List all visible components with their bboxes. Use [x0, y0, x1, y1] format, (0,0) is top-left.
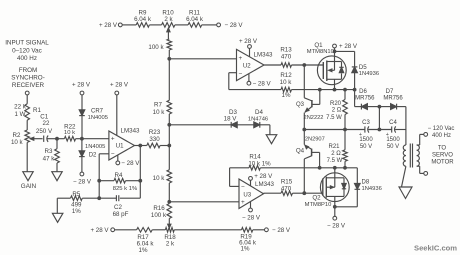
capacitor C4 1500uF 50V [386, 120, 401, 150]
svg-text:SeekIC.com: SeekIC.com [414, 244, 457, 253]
resistor R7 10k [153, 100, 172, 116]
svg-text:1%: 1% [72, 208, 81, 215]
resistor R22 10k [57, 123, 82, 141]
resistor 10k below node C [153, 146, 172, 202]
node Q1 source [333, 88, 337, 92]
wire bottom rail left [115, 229, 137, 231]
label -120 Vac 400 Hz [428, 126, 455, 139]
svg-text:1N4005: 1N4005 [85, 144, 105, 150]
zener D3 18V [224, 109, 254, 128]
svg-text:R14: R14 [249, 153, 261, 160]
node R5/C2 junction [97, 196, 101, 200]
node Q4 base tap [318, 166, 322, 170]
svg-text:7.5 W: 7.5 W [327, 158, 343, 164]
input terminal from synchro receiver [25, 91, 29, 104]
svg-text:400 Hz: 400 Hz [17, 55, 37, 62]
resistor 100k below R10 wiper [148, 39, 171, 51]
wire source rail left of R12 [229, 89, 281, 91]
svg-text:10 k 1%: 10 k 1% [248, 160, 271, 167]
wire R1 to R2 [26, 120, 28, 130]
svg-text:TO: TO [438, 146, 447, 152]
wire secondary bottom to terminal [417, 166, 428, 175]
node CR7/D2 junction [80, 137, 84, 141]
ground below zener clamp [266, 135, 277, 144]
resistor R17 6.04k 1% [137, 228, 155, 254]
svg-text:U1: U1 [116, 143, 124, 150]
diode D2 1N4005 [79, 139, 105, 172]
wire R18 to R19 [174, 229, 241, 231]
ground below R5 [52, 213, 63, 222]
node U1 output [138, 144, 142, 148]
svg-text:D5: D5 [359, 64, 367, 71]
svg-text:MR756: MR756 [383, 95, 403, 101]
op-amp U3 LM343 [239, 179, 275, 209]
svg-text:R3: R3 [45, 148, 53, 155]
node R20 top [343, 88, 347, 92]
svg-text:10 k: 10 k [153, 175, 166, 182]
svg-text:−: − [239, 70, 243, 77]
+28V terminal bottom rail [90, 227, 114, 234]
diode D8 1N4936 [355, 168, 382, 207]
resistor R19 6.04k 1% [239, 228, 257, 253]
svg-text:D4: D4 [255, 109, 263, 116]
capacitor C2 68pF [99, 195, 140, 218]
wire U2 output [264, 64, 281, 66]
svg-text:2 Ω: 2 Ω [332, 108, 342, 114]
svg-text:2N2907: 2N2907 [305, 137, 325, 143]
svg-text:10 k: 10 k [280, 79, 293, 86]
potentiometer R18 2k [164, 228, 176, 248]
svg-text:+: + [239, 55, 243, 62]
wire secondary top to output terminal [417, 133, 428, 146]
diode D7 MR756 [379, 89, 406, 130]
svg-text:68 pF: 68 pF [113, 211, 129, 218]
node A wire to U2 [167, 50, 236, 61]
wire R2 to GAIN ground [26, 142, 28, 171]
svg-text:100 k: 100 k [148, 44, 164, 51]
+28V pin of U3 [249, 173, 274, 186]
node Q3 base tap [318, 88, 322, 92]
svg-text:LM343: LM343 [255, 181, 274, 188]
diode CR7 1N4005 [79, 108, 108, 138]
svg-text:47 k: 47 k [43, 155, 56, 162]
svg-text:18 V: 18 V [224, 115, 238, 122]
diode D6 MR756 [355, 89, 380, 110]
svg-text:D2: D2 [89, 153, 97, 159]
node R4 right [138, 179, 142, 183]
resistor R21 2ohm 7.5W [327, 130, 348, 168]
svg-text:100 k: 100 k [151, 212, 167, 219]
svg-text:1%: 1% [282, 92, 291, 99]
svg-text:C3: C3 [362, 120, 370, 126]
svg-text:U3: U3 [243, 191, 251, 198]
op-amp U2 LM343 [237, 49, 274, 80]
node R3 junction [55, 137, 59, 141]
+28V terminal for U1 [110, 82, 129, 136]
svg-text:+ 28 V: + 28 V [339, 43, 358, 50]
svg-text:+: + [111, 136, 115, 143]
resistor R14 10k 1% [248, 153, 271, 170]
svg-text:CR7: CR7 [91, 108, 104, 114]
node D5 bottom [353, 88, 357, 107]
-28V pin of U2 [247, 74, 272, 88]
wire gate line to Q2 [304, 192, 323, 194]
svg-text:6.04 k: 6.04 k [134, 16, 152, 23]
mosfet Q2 MTM8P10 [320, 168, 349, 207]
svg-text:2 Ω: 2 Ω [331, 151, 341, 157]
wire Q2 source rail [333, 205, 357, 209]
output rail [304, 129, 406, 131]
svg-text:− 120 Vac: − 120 Vac [428, 126, 455, 132]
svg-text:+ 28 V: + 28 V [254, 173, 273, 180]
capacitor C1 22uF 250V [36, 113, 57, 142]
svg-text:0–120 Vac: 0–120 Vac [12, 48, 42, 55]
svg-text:+: + [241, 199, 245, 206]
resistor R11 6.04k [186, 9, 204, 27]
+28V pin of U2 [239, 38, 258, 57]
svg-text:R12: R12 [280, 72, 292, 79]
svg-text:825 k 1%: 825 k 1% [113, 186, 138, 192]
wire U2 minus feedback loop [229, 73, 237, 90]
resistor R1 22k 1W [14, 104, 41, 121]
node R21 bottom [343, 166, 347, 170]
watermark SeekIC.com [414, 244, 457, 253]
svg-text:R13: R13 [280, 46, 292, 53]
node B junction [167, 114, 171, 127]
svg-text:R7: R7 [154, 101, 162, 108]
node D junction [167, 200, 171, 204]
svg-text:− 28 V: − 28 V [225, 22, 244, 29]
-28V pin of U3 [242, 202, 261, 222]
node Q3/Q4 emitter on output rail [302, 128, 306, 132]
svg-text:Q2: Q2 [312, 195, 321, 202]
wire U1 output down to C2 [139, 146, 141, 199]
+28V terminal above CR7 [72, 82, 91, 110]
svg-text:R5: R5 [72, 191, 80, 198]
wire top rail [122, 24, 217, 26]
wire node B to zener clamp [169, 124, 231, 126]
svg-text:1%: 1% [241, 245, 250, 252]
svg-text:R15: R15 [281, 178, 293, 185]
zener D4 1N4746 [248, 109, 270, 128]
svg-text:+ 28 V: + 28 V [99, 22, 118, 29]
svg-text:−: − [111, 151, 115, 158]
svg-text:470: 470 [281, 53, 292, 60]
node Q3 collector on gate line [302, 63, 306, 67]
transistor Q3 2N2222 [296, 65, 323, 130]
svg-text:1N4005: 1N4005 [88, 115, 108, 121]
ground below R3 [52, 172, 62, 181]
wire U1 minus feedback [99, 154, 109, 198]
svg-text:470: 470 [281, 185, 292, 192]
svg-text:D8: D8 [362, 179, 370, 185]
svg-text:U2: U2 [243, 63, 251, 70]
svg-text:2 k: 2 k [166, 240, 175, 247]
+28V terminal top rail [99, 22, 122, 29]
svg-text:+ 28 V: + 28 V [239, 38, 258, 45]
svg-text:− 28 V: − 28 V [73, 178, 92, 185]
ground below transformer [399, 187, 412, 199]
wire Q1 drain [333, 48, 337, 62]
node Q2 drain [333, 166, 337, 170]
label INPUT SIGNAL [5, 40, 49, 63]
svg-text:R21: R21 [328, 144, 340, 150]
label FROM SYNCHRO-RECEIVER [11, 67, 45, 89]
svg-text:10 k: 10 k [153, 109, 166, 116]
svg-text:1N4936: 1N4936 [359, 71, 379, 77]
svg-text:C2: C2 [114, 204, 122, 211]
potentiometer R10 2k [162, 9, 175, 27]
svg-text:7.5 W: 7.5 W [326, 115, 342, 121]
svg-text:− 28 V: − 28 V [327, 222, 346, 229]
svg-text:RECEIVER: RECEIVER [12, 82, 45, 89]
wiper arrow of R2 [30, 137, 42, 140]
svg-text:− 28 V: − 28 V [242, 214, 261, 221]
svg-text:1%: 1% [139, 247, 148, 254]
resistor R15 470 [281, 178, 293, 195]
svg-text:LM343: LM343 [254, 51, 273, 58]
resistor R23 330 [135, 129, 170, 148]
wire primary bottom to ground [402, 166, 406, 187]
svg-text:400 Hz: 400 Hz [432, 133, 451, 139]
wire node A down to R7 [168, 59, 170, 101]
mosfet Q1 MTM8N10 [317, 56, 346, 90]
diode D5 1N4936 [335, 51, 380, 89]
resistor R9 6.04k [134, 9, 152, 27]
svg-text:6.04 k: 6.04 k [186, 16, 204, 23]
svg-text:SERVO: SERVO [432, 153, 453, 159]
svg-text:LM343: LM343 [121, 127, 140, 134]
svg-text:50 V: 50 V [387, 144, 399, 150]
op-amp U1 LM343 [109, 127, 140, 160]
label Q1 MTM8N10 [307, 42, 334, 55]
capacitor C3 1500uF 50V [359, 120, 373, 150]
svg-text:R23: R23 [149, 129, 161, 136]
svg-text:R2: R2 [13, 132, 21, 139]
svg-text:330: 330 [149, 136, 160, 143]
svg-text:D6: D6 [359, 89, 367, 95]
svg-text:MTM8N10: MTM8N10 [307, 49, 334, 55]
svg-text:− 28 V: − 28 V [253, 81, 272, 88]
svg-text:50 V: 50 V [360, 144, 372, 150]
resistor R13 470 [280, 46, 292, 67]
svg-text:1N4746: 1N4746 [248, 116, 268, 122]
svg-text:R20: R20 [330, 101, 342, 107]
svg-text:+ 28 V: + 28 V [72, 82, 91, 89]
wire U3 output [264, 192, 282, 194]
svg-text:MOTOR: MOTOR [431, 160, 454, 166]
wire Q2 drain rail [230, 167, 358, 169]
svg-text:22 k: 22 k [14, 104, 27, 111]
label Q2 MTM8P10 [305, 195, 332, 208]
node R15/Q4 collector junction [293, 191, 307, 195]
transistor Q4 2N2907 [304, 130, 319, 194]
resistor R5 499 1% [57, 191, 99, 215]
svg-text:FROM: FROM [19, 67, 38, 74]
svg-text:− 28 V: − 28 V [121, 160, 140, 167]
-28V terminal top rail [217, 22, 244, 29]
label 2N2907 Q4 [296, 137, 325, 155]
svg-text:2 k: 2 k [164, 16, 173, 23]
svg-text:MTM8P10: MTM8P10 [305, 202, 332, 208]
svg-text:C4: C4 [389, 120, 397, 126]
svg-text:1500: 1500 [386, 137, 400, 143]
wire node D to U3 plus [169, 201, 239, 203]
transformer T1 [403, 130, 419, 168]
svg-text:1500: 1500 [359, 137, 373, 143]
svg-text:−: − [241, 184, 245, 191]
wire input to U1 plus [82, 138, 109, 140]
svg-text:GAIN: GAIN [21, 183, 37, 190]
-28V terminal below D2 [73, 172, 92, 185]
ground GAIN [21, 172, 37, 190]
svg-text:Q1: Q1 [314, 42, 323, 49]
wire node B down to R23 node [167, 125, 171, 148]
node R20/R21 on output rail [343, 128, 347, 132]
svg-text:22: 22 [43, 120, 50, 127]
resistor R16 100k [151, 204, 172, 219]
svg-text:− 28 V: − 28 V [272, 227, 291, 234]
wiper arrow onto R18 [168, 219, 171, 229]
resistor R3 47k [43, 139, 60, 172]
wire source rail to Q1 [292, 89, 355, 91]
wire U3 minus feedback loop [230, 168, 239, 187]
resistor R4 825k 1% [99, 172, 140, 192]
svg-text:1 W: 1 W [14, 111, 25, 118]
+28V terminal at Q1 drain [333, 43, 358, 50]
svg-text:10 k: 10 k [64, 130, 75, 136]
svg-text:D7: D7 [386, 89, 394, 95]
wire gate line to Q1 [292, 64, 324, 66]
svg-text:10 k: 10 k [11, 139, 24, 146]
svg-text:250 V: 250 V [36, 128, 53, 135]
svg-text:2N2222: 2N2222 [304, 115, 324, 121]
wire R17 to R18 [152, 229, 165, 231]
resistor R20 2ohm 7.5W [326, 90, 347, 130]
node D6-D7 midpoint [378, 105, 382, 132]
svg-text:MR756: MR756 [355, 95, 375, 101]
resistor R12 10k 1% [280, 72, 293, 99]
wiper arrow of R10 [167, 28, 170, 39]
svg-text:R4: R4 [115, 172, 123, 179]
svg-text:1N4936: 1N4936 [362, 186, 382, 192]
label TO SERVO MOTOR [431, 146, 454, 166]
svg-text:Q4: Q4 [296, 147, 305, 154]
wire D4 to ground [269, 125, 271, 135]
-28V terminal bottom rail [253, 227, 291, 234]
svg-text:R16: R16 [153, 205, 165, 212]
-28V pin of U1 [116, 155, 140, 167]
svg-text:Q3: Q3 [296, 102, 305, 108]
svg-text:INPUT SIGNAL: INPUT SIGNAL [5, 40, 49, 47]
-28V terminal below Q2 [327, 207, 346, 230]
node R4 left [97, 179, 101, 183]
potentiometer R2 10k [11, 130, 30, 146]
svg-text:+ 28 V: + 28 V [110, 82, 129, 89]
svg-text:SYNCHRO-: SYNCHRO- [11, 75, 45, 82]
svg-text:+ 28 V: + 28 V [90, 227, 109, 234]
wire R5 to ground [56, 198, 58, 213]
